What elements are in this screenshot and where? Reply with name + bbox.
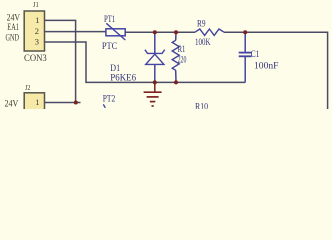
svg-text:PT1: PT1 [104, 15, 115, 25]
diode D1 top lead [154, 32, 156, 53]
connector J2 body [24, 93, 44, 133]
svg-text:R1: R1 [178, 45, 186, 55]
svg-text:J1: J1 [33, 0, 39, 9]
svg-text:2: 2 [35, 26, 39, 36]
diode D1 cathode bar with wings [145, 50, 165, 54]
wire top rail from R9 to right corner then down [224, 32, 328, 109]
junction dot bottom R1 [174, 80, 178, 84]
resistor R1 top lead [175, 32, 177, 40]
resistor R9 zigzag [195, 29, 224, 35]
capacitor C1 bottom lead [244, 56, 246, 82]
thermistor PT2 slash tip [103, 104, 105, 108]
svg-text:PT2: PT2 [103, 95, 116, 105]
junction dot 24V rail row2 [74, 101, 78, 105]
wire top rail from PT1 to R9 [125, 31, 195, 33]
thermistor PT1 body [106, 29, 125, 36]
junction dot top C1 [243, 30, 247, 34]
ground stem [154, 82, 156, 92]
sheet background [0, 0, 332, 109]
svg-text:PTC: PTC [102, 42, 117, 52]
svg-text:1: 1 [35, 15, 39, 25]
connector J1 body [24, 11, 44, 51]
svg-text:1: 1 [35, 97, 39, 107]
resistor R1 zigzag [172, 40, 179, 70]
svg-text:24V: 24V [7, 13, 21, 23]
capacitor C1 top plate [239, 52, 252, 54]
svg-text:P6KE6: P6KE6 [110, 74, 136, 84]
svg-text:J2: J2 [25, 83, 31, 92]
diode D1 triangle [146, 54, 164, 64]
diode D1 bottom lead [154, 64, 156, 82]
svg-text:EA1: EA1 [7, 23, 19, 33]
wire pin3 GND right then down to bottom rail [45, 42, 246, 82]
ground bar 4 [152, 105, 154, 107]
wire J2 pin1 [45, 102, 81, 104]
ground bar 1 [144, 91, 162, 93]
junction dot top D1 [153, 30, 157, 34]
thermistor PT1 slash [106, 23, 125, 40]
ground bar 2 [147, 96, 159, 98]
capacitor C1 bottom plate [239, 55, 252, 57]
svg-text:CON3: CON3 [24, 54, 47, 64]
ground bar 3 [150, 101, 155, 103]
svg-text:C1: C1 [251, 50, 260, 60]
svg-text:R10: R10 [195, 102, 208, 109]
resistor R1 bottom lead [175, 70, 177, 82]
svg-text:3: 3 [35, 37, 39, 47]
svg-text:GND: GND [6, 34, 20, 44]
junction dot bottom D1 [153, 80, 157, 84]
junction dot top R1 [174, 30, 178, 34]
wire pin2 EA1 to PT1 [45, 31, 107, 33]
wire pin1 24V horizontal then down [45, 20, 76, 102]
svg-text:100nF: 100nF [254, 61, 279, 71]
svg-text:24V: 24V [5, 99, 19, 109]
svg-text:100K: 100K [195, 38, 211, 48]
svg-text:R9: R9 [197, 20, 206, 30]
svg-text:D1: D1 [110, 64, 120, 74]
capacitor C1 top lead [244, 32, 246, 52]
svg-text:220: 220 [178, 55, 187, 65]
